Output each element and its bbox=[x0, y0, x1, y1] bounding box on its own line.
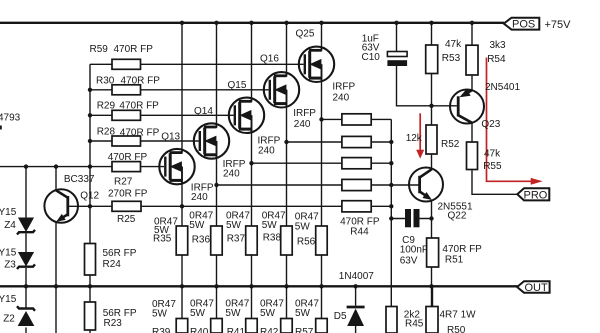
node dot Q22 emitter C9 bbox=[429, 216, 433, 220]
wire Q16 source column bbox=[286, 90, 288, 319]
resistor R29 bbox=[112, 110, 141, 120]
svg-text:3k3: 3k3 bbox=[490, 40, 507, 51]
wire gate row R28 to Q14 bbox=[90, 140, 199, 142]
svg-text:BC337: BC337 bbox=[64, 174, 95, 185]
svg-text:R56: R56 bbox=[297, 237, 316, 248]
wire sense row 2 bbox=[287, 141, 392, 143]
svg-text:4R7 1W: 4R7 1W bbox=[440, 310, 477, 321]
wire C9 row bbox=[391, 218, 431, 220]
node rail dot Q25 drain bbox=[319, 21, 323, 25]
svg-text:2N5401: 2N5401 bbox=[485, 82, 520, 93]
node rail dot Q14 drain bbox=[214, 21, 218, 25]
resistor sense row4 bbox=[342, 179, 371, 190]
mosfet Q16 bbox=[264, 72, 299, 107]
node dot bus row4 bbox=[389, 183, 393, 187]
svg-text:470R FP: 470R FP bbox=[119, 101, 159, 112]
resistor R25 bbox=[112, 201, 141, 211]
node dot bus C9 bbox=[389, 216, 393, 220]
svg-text:R44: R44 bbox=[350, 227, 369, 238]
transistor Q23 2N5401 bbox=[450, 89, 484, 124]
node gate bus dot R28 bbox=[88, 139, 92, 143]
wire Q16 drain column bbox=[286, 23, 288, 77]
wire gate bus vertical x=90 bbox=[89, 64, 91, 333]
flag OUT bbox=[517, 281, 550, 293]
resistor R35 bbox=[176, 226, 188, 255]
node dot R37 OUT rail bbox=[249, 284, 253, 288]
node dot C10 R52 link bbox=[429, 104, 433, 108]
svg-text:Q14: Q14 bbox=[194, 106, 213, 117]
capacitor C10 bbox=[387, 52, 407, 67]
resistor R38 bbox=[281, 226, 293, 255]
svg-text:240: 240 bbox=[258, 146, 275, 157]
node dot zener top bbox=[24, 164, 28, 168]
node rail dot R54 bbox=[470, 21, 474, 25]
svg-text:Y15: Y15 bbox=[0, 294, 17, 305]
wire Q25 drain column bbox=[321, 23, 323, 52]
svg-text:R24: R24 bbox=[103, 259, 122, 270]
wire zener column x=26 bbox=[25, 167, 27, 333]
red arrow right to PRO bbox=[487, 58, 543, 185]
svg-text:470R FP: 470R FP bbox=[114, 44, 154, 55]
resistor R45 bbox=[386, 307, 397, 333]
label partial mark bbox=[0, 126, 2, 130]
node dot R56 OUT rail bbox=[319, 284, 323, 288]
resistor R28 bbox=[112, 136, 141, 146]
svg-text:5W: 5W bbox=[295, 222, 311, 233]
resistor R53 bbox=[426, 45, 438, 74]
svg-text:R41: R41 bbox=[227, 327, 246, 333]
node rail dot Q15 drain bbox=[249, 21, 253, 25]
node dot Q14 source sense bbox=[214, 183, 218, 187]
node gate bus dot Q12 base bbox=[88, 204, 92, 208]
node rail dot Q16 drain bbox=[284, 21, 288, 25]
svg-text:R23: R23 bbox=[104, 318, 123, 329]
node dot zener OUT rail bbox=[24, 284, 28, 288]
svg-text:Z4: Z4 bbox=[4, 220, 16, 231]
wire Q13 source column bbox=[181, 167, 183, 319]
svg-text:PRO: PRO bbox=[524, 190, 548, 202]
svg-text:Y15: Y15 bbox=[0, 248, 17, 259]
wire Q15 drain column bbox=[251, 23, 253, 103]
node dot Q12 emitter OUT rail bbox=[54, 284, 58, 288]
wire C10 column and link to base node bbox=[397, 23, 457, 106]
zener Z4 bbox=[17, 218, 35, 235]
svg-text:5W: 5W bbox=[189, 220, 205, 231]
node dot bus row5 bbox=[389, 204, 393, 208]
mosfet Q25 bbox=[299, 47, 334, 82]
svg-text:5W: 5W bbox=[152, 309, 168, 320]
node dot R35 OUT rail bbox=[180, 284, 184, 288]
svg-text:Q13: Q13 bbox=[161, 132, 180, 143]
svg-text:56R FP: 56R FP bbox=[103, 248, 137, 259]
resistor R37 bbox=[246, 226, 258, 255]
node dot Q12 collector bbox=[54, 164, 58, 168]
node dot R51 OUT rail bbox=[429, 284, 433, 288]
svg-text:470R FP: 470R FP bbox=[120, 128, 160, 139]
svg-text:240: 240 bbox=[333, 93, 350, 104]
wire sense row 3 bbox=[252, 162, 392, 164]
svg-text:IRFP: IRFP bbox=[332, 81, 355, 92]
svg-text:240: 240 bbox=[191, 192, 208, 203]
node dot D5 OUT rail bbox=[353, 284, 357, 288]
svg-text:POS: POS bbox=[512, 19, 535, 31]
transistor Q12 BC337 bbox=[44, 189, 78, 223]
wire R25 row to R44 bbox=[69, 205, 391, 207]
mosfet Q15 bbox=[229, 98, 264, 133]
node gate bus dot OUT rail bbox=[88, 284, 92, 288]
resistor R54 bbox=[466, 45, 478, 75]
svg-text:R35: R35 bbox=[153, 234, 172, 245]
wire Q23 collector to R55 and PRO bbox=[472, 123, 517, 195]
svg-text:47k: 47k bbox=[445, 39, 462, 50]
node dot bus row2 bbox=[389, 140, 393, 144]
flag POS bbox=[504, 18, 540, 30]
svg-text:Q12: Q12 bbox=[80, 191, 99, 202]
wire gate row R59 to Q25 bbox=[90, 63, 304, 65]
node gate bus dot R29 bbox=[88, 113, 92, 117]
wire sense row 4 and Q22 base bbox=[217, 184, 420, 186]
svg-text:240: 240 bbox=[294, 119, 311, 130]
flag PRO bbox=[517, 188, 549, 200]
svg-text:Y15: Y15 bbox=[0, 207, 17, 218]
svg-text:Q22: Q22 bbox=[448, 211, 467, 222]
resistor R36 bbox=[211, 226, 223, 255]
svg-text:R27: R27 bbox=[114, 176, 133, 187]
resistor R42 bbox=[281, 319, 293, 333]
resistor R57 bbox=[316, 319, 328, 333]
svg-text:Q25: Q25 bbox=[296, 29, 315, 40]
svg-text:12k: 12k bbox=[406, 133, 423, 144]
svg-text:R40: R40 bbox=[190, 327, 209, 333]
resistor R27 bbox=[112, 162, 141, 172]
wire Q13 drain column bbox=[181, 23, 183, 154]
resistor R59 bbox=[112, 59, 141, 69]
svg-text:R59: R59 bbox=[90, 44, 109, 55]
svg-text:R39: R39 bbox=[152, 327, 171, 333]
svg-text:470R FP: 470R FP bbox=[442, 244, 482, 255]
wire gate row R30 to Q16 bbox=[90, 89, 269, 91]
zener Z3 bbox=[17, 253, 35, 270]
wire D5 column bbox=[355, 286, 357, 333]
svg-text:R50: R50 bbox=[447, 325, 466, 333]
node dot Q25 source sense bbox=[319, 117, 323, 121]
capacitor C9 bbox=[405, 209, 420, 227]
svg-text:5W: 5W bbox=[226, 220, 242, 231]
node gate bus dot R30 bbox=[88, 88, 92, 92]
svg-text:R52: R52 bbox=[441, 139, 460, 150]
node dot Q16 source sense bbox=[284, 140, 288, 144]
svg-text:R45: R45 bbox=[405, 318, 424, 329]
svg-text:47k: 47k bbox=[484, 149, 501, 160]
svg-text:100nF: 100nF bbox=[400, 245, 428, 256]
wire Q14 drain column bbox=[216, 23, 218, 128]
resistor R44 bbox=[342, 201, 371, 212]
zener Z2 bbox=[17, 306, 35, 325]
resistor sense row2 bbox=[342, 136, 371, 147]
resistor R39 bbox=[176, 319, 188, 333]
node rail dot C10 bbox=[394, 21, 398, 25]
svg-text:R30: R30 bbox=[96, 76, 115, 87]
wire R53 R52 column x=431.5 bbox=[431, 23, 433, 169]
svg-text:5W: 5W bbox=[260, 308, 276, 319]
wire node row y=166.6 left bbox=[0, 166, 112, 168]
svg-text:5W: 5W bbox=[225, 308, 241, 319]
wire sense bus x=391.3 bbox=[390, 119, 392, 306]
svg-text:C10: C10 bbox=[362, 52, 381, 63]
node dot bus row3 bbox=[389, 161, 393, 165]
svg-text:470R FP: 470R FP bbox=[121, 76, 161, 87]
svg-text:R54: R54 bbox=[487, 54, 506, 65]
node dot Q15 source sense bbox=[249, 161, 253, 165]
wire OUT rail bbox=[0, 285, 518, 287]
resistor sense row3 bbox=[342, 158, 371, 169]
svg-text:R37: R37 bbox=[227, 234, 246, 245]
resistor R56 bbox=[316, 226, 328, 255]
svg-text:270R FP: 270R FP bbox=[108, 189, 148, 200]
node rail dot R53 bbox=[429, 21, 433, 25]
wire gate row R27 to Q13 bbox=[141, 166, 165, 168]
wire sense row 1 bbox=[322, 118, 392, 120]
svg-text:Q15: Q15 bbox=[228, 80, 247, 91]
svg-text:R28: R28 bbox=[97, 126, 116, 137]
svg-text:5W: 5W bbox=[190, 308, 206, 319]
wire +75V top rail bbox=[0, 22, 504, 24]
svg-text:5W: 5W bbox=[295, 308, 311, 319]
mosfet Q13 bbox=[159, 149, 194, 184]
svg-text:Z2: Z2 bbox=[3, 314, 15, 325]
svg-text:R42: R42 bbox=[260, 327, 279, 333]
wire Q12 collector/emitter column x=56 bbox=[55, 167, 57, 333]
node rail dot Q13 drain bbox=[180, 21, 184, 25]
svg-text:470R FP: 470R FP bbox=[108, 152, 148, 163]
svg-text:5W: 5W bbox=[262, 220, 278, 231]
mosfet Q14 bbox=[194, 123, 229, 158]
node dot Q13 source sense bbox=[180, 204, 184, 208]
node dot R38 OUT rail bbox=[284, 284, 288, 288]
svg-text:R29: R29 bbox=[97, 101, 116, 112]
node dot R36 OUT rail bbox=[214, 284, 218, 288]
svg-text:R57: R57 bbox=[295, 327, 314, 333]
wire Q22 emitter to R51 and R50 bbox=[432, 201, 433, 307]
svg-text:4793: 4793 bbox=[0, 112, 21, 123]
wire Q14 source column bbox=[216, 141, 218, 319]
resistor R24 bbox=[85, 244, 96, 276]
svg-text:+75V: +75V bbox=[545, 19, 572, 31]
node gate bus dot R27 bbox=[88, 164, 92, 168]
svg-text:R25: R25 bbox=[117, 214, 136, 225]
svg-text:240: 240 bbox=[223, 168, 240, 179]
svg-text:IRFP: IRFP bbox=[293, 108, 316, 119]
diode D5 1N4007 bbox=[347, 307, 365, 326]
svg-text:63V: 63V bbox=[400, 256, 418, 267]
resistor R52 bbox=[426, 125, 437, 154]
resistor R23 bbox=[85, 302, 96, 330]
resistor sense row1 bbox=[342, 114, 371, 125]
svg-text:R36: R36 bbox=[192, 235, 211, 246]
svg-text:1N4007: 1N4007 bbox=[339, 271, 374, 282]
svg-text:R55: R55 bbox=[483, 161, 502, 172]
svg-text:D5: D5 bbox=[334, 311, 347, 322]
resistor R55 bbox=[467, 142, 478, 170]
wire R54 column and Q23 emitter bbox=[471, 23, 473, 91]
wire Q15 source column bbox=[251, 115, 253, 318]
svg-text:Z3: Z3 bbox=[4, 260, 16, 271]
red arrow down 12k bbox=[416, 113, 424, 158]
svg-text:R38: R38 bbox=[263, 233, 282, 244]
transistor Q22 2N5551 bbox=[409, 168, 443, 202]
svg-text:OUT: OUT bbox=[525, 282, 549, 294]
svg-text:R53: R53 bbox=[442, 53, 461, 64]
svg-text:R51: R51 bbox=[445, 255, 464, 266]
svg-text:Q16: Q16 bbox=[260, 54, 279, 65]
wire Q25 source column bbox=[321, 64, 323, 318]
resistor R40 bbox=[211, 319, 223, 333]
resistor R30 bbox=[112, 85, 141, 95]
resistor R51 bbox=[427, 238, 439, 267]
resistor R50 bbox=[426, 307, 438, 333]
wire gate row R29 to Q15 bbox=[90, 114, 234, 116]
resistor R41 bbox=[246, 319, 258, 333]
svg-text:Q23: Q23 bbox=[481, 119, 500, 130]
